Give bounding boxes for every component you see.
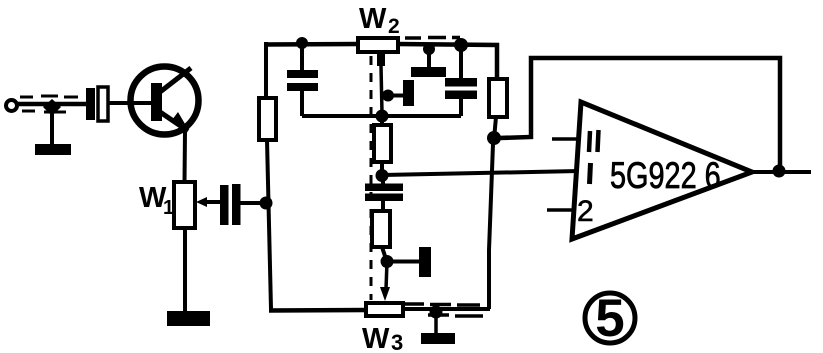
wire: shield to ground	[50, 108, 54, 145]
wire: input core	[17, 102, 88, 107]
ground (W1)	[167, 311, 210, 326]
W1 wiper arrow	[196, 197, 221, 207]
resistor R1	[259, 98, 276, 140]
wire: C1 to base	[108, 101, 151, 105]
node: W3 ground tap	[430, 306, 443, 319]
node: top rail ground tap	[423, 43, 435, 55]
svg-text:2: 2	[577, 195, 594, 228]
node D (feedback junction)	[487, 131, 501, 145]
capacitor C5	[365, 179, 403, 212]
gang dashed link W2-W3	[370, 56, 373, 300]
node: shield junction	[43, 99, 61, 116]
resistor R4	[372, 211, 390, 247]
wire: left branch upper	[264, 42, 268, 100]
W3 wiper	[380, 262, 390, 301]
capacitor C2	[220, 184, 241, 225]
figure number badge 5	[585, 289, 635, 348]
wire: left branch lower	[267, 140, 271, 309]
wire: node B to pin 1	[383, 171, 579, 175]
node: top rail / C3	[296, 37, 308, 49]
svg-text:W: W	[362, 323, 390, 353]
wire: R4 to node C	[382, 247, 386, 259]
svg-text:5: 5	[595, 289, 624, 348]
transistor Q1	[131, 67, 199, 135]
node: mid rail	[376, 110, 389, 123]
pin label 11	[589, 130, 599, 152]
pin 11 stub	[552, 137, 580, 141]
dashes right of W3	[404, 304, 483, 316]
capacitor C1 (input coupling)	[86, 87, 108, 121]
ground (node C)	[387, 247, 431, 277]
svg-text:2: 2	[388, 15, 400, 38]
node C (ground tap)	[381, 255, 394, 268]
shield dash top	[20, 96, 78, 97]
potentiometer W2	[358, 38, 398, 52]
wire: W3 right terminal	[402, 307, 490, 311]
shield dash bottom	[22, 111, 66, 112]
dashes right of W2	[405, 36, 460, 40]
op-amp U1 (5G922)	[572, 102, 752, 239]
pin label 1	[590, 163, 591, 184]
node: top rail / C4	[454, 38, 468, 52]
potentiometer W3	[366, 303, 403, 316]
ground (input shield)	[35, 144, 71, 155]
node B (to op-amp input 1)	[376, 169, 389, 182]
wire: feedback loop	[499, 58, 780, 170]
resistor R3	[374, 116, 391, 176]
resistor R2	[489, 79, 507, 117]
wire: node D down to W3	[489, 144, 493, 309]
wire: W1 to ground	[183, 228, 187, 313]
W2 wiper	[381, 53, 382, 113]
wire: R2 to node D	[494, 117, 496, 139]
capacitor C4	[445, 47, 477, 116]
pin 2 stub	[547, 208, 575, 212]
node A	[260, 197, 273, 210]
svg-text:W: W	[359, 3, 387, 35]
node: output	[773, 165, 786, 178]
capacitor C3	[287, 45, 318, 116]
wire: C2 to node A	[240, 201, 264, 205]
ground (W3)	[421, 314, 455, 344]
svg-text:3: 3	[391, 330, 403, 353]
ground (W2 wiper)	[388, 80, 414, 106]
wire: mid rail	[302, 114, 461, 118]
wire: op-amp output	[752, 170, 811, 174]
wire: top rail left	[264, 42, 360, 47]
ground (top rail)	[411, 45, 446, 77]
wire: top rail right	[397, 44, 497, 80]
potentiometer W1	[174, 182, 195, 228]
input jack terminal	[6, 100, 17, 111]
wire: bottom rail	[269, 308, 368, 313]
svg-text:5G922 6: 5G922 6	[610, 156, 721, 197]
node: wiper ground tap	[382, 90, 394, 102]
wire: emitter to W1	[183, 131, 188, 183]
